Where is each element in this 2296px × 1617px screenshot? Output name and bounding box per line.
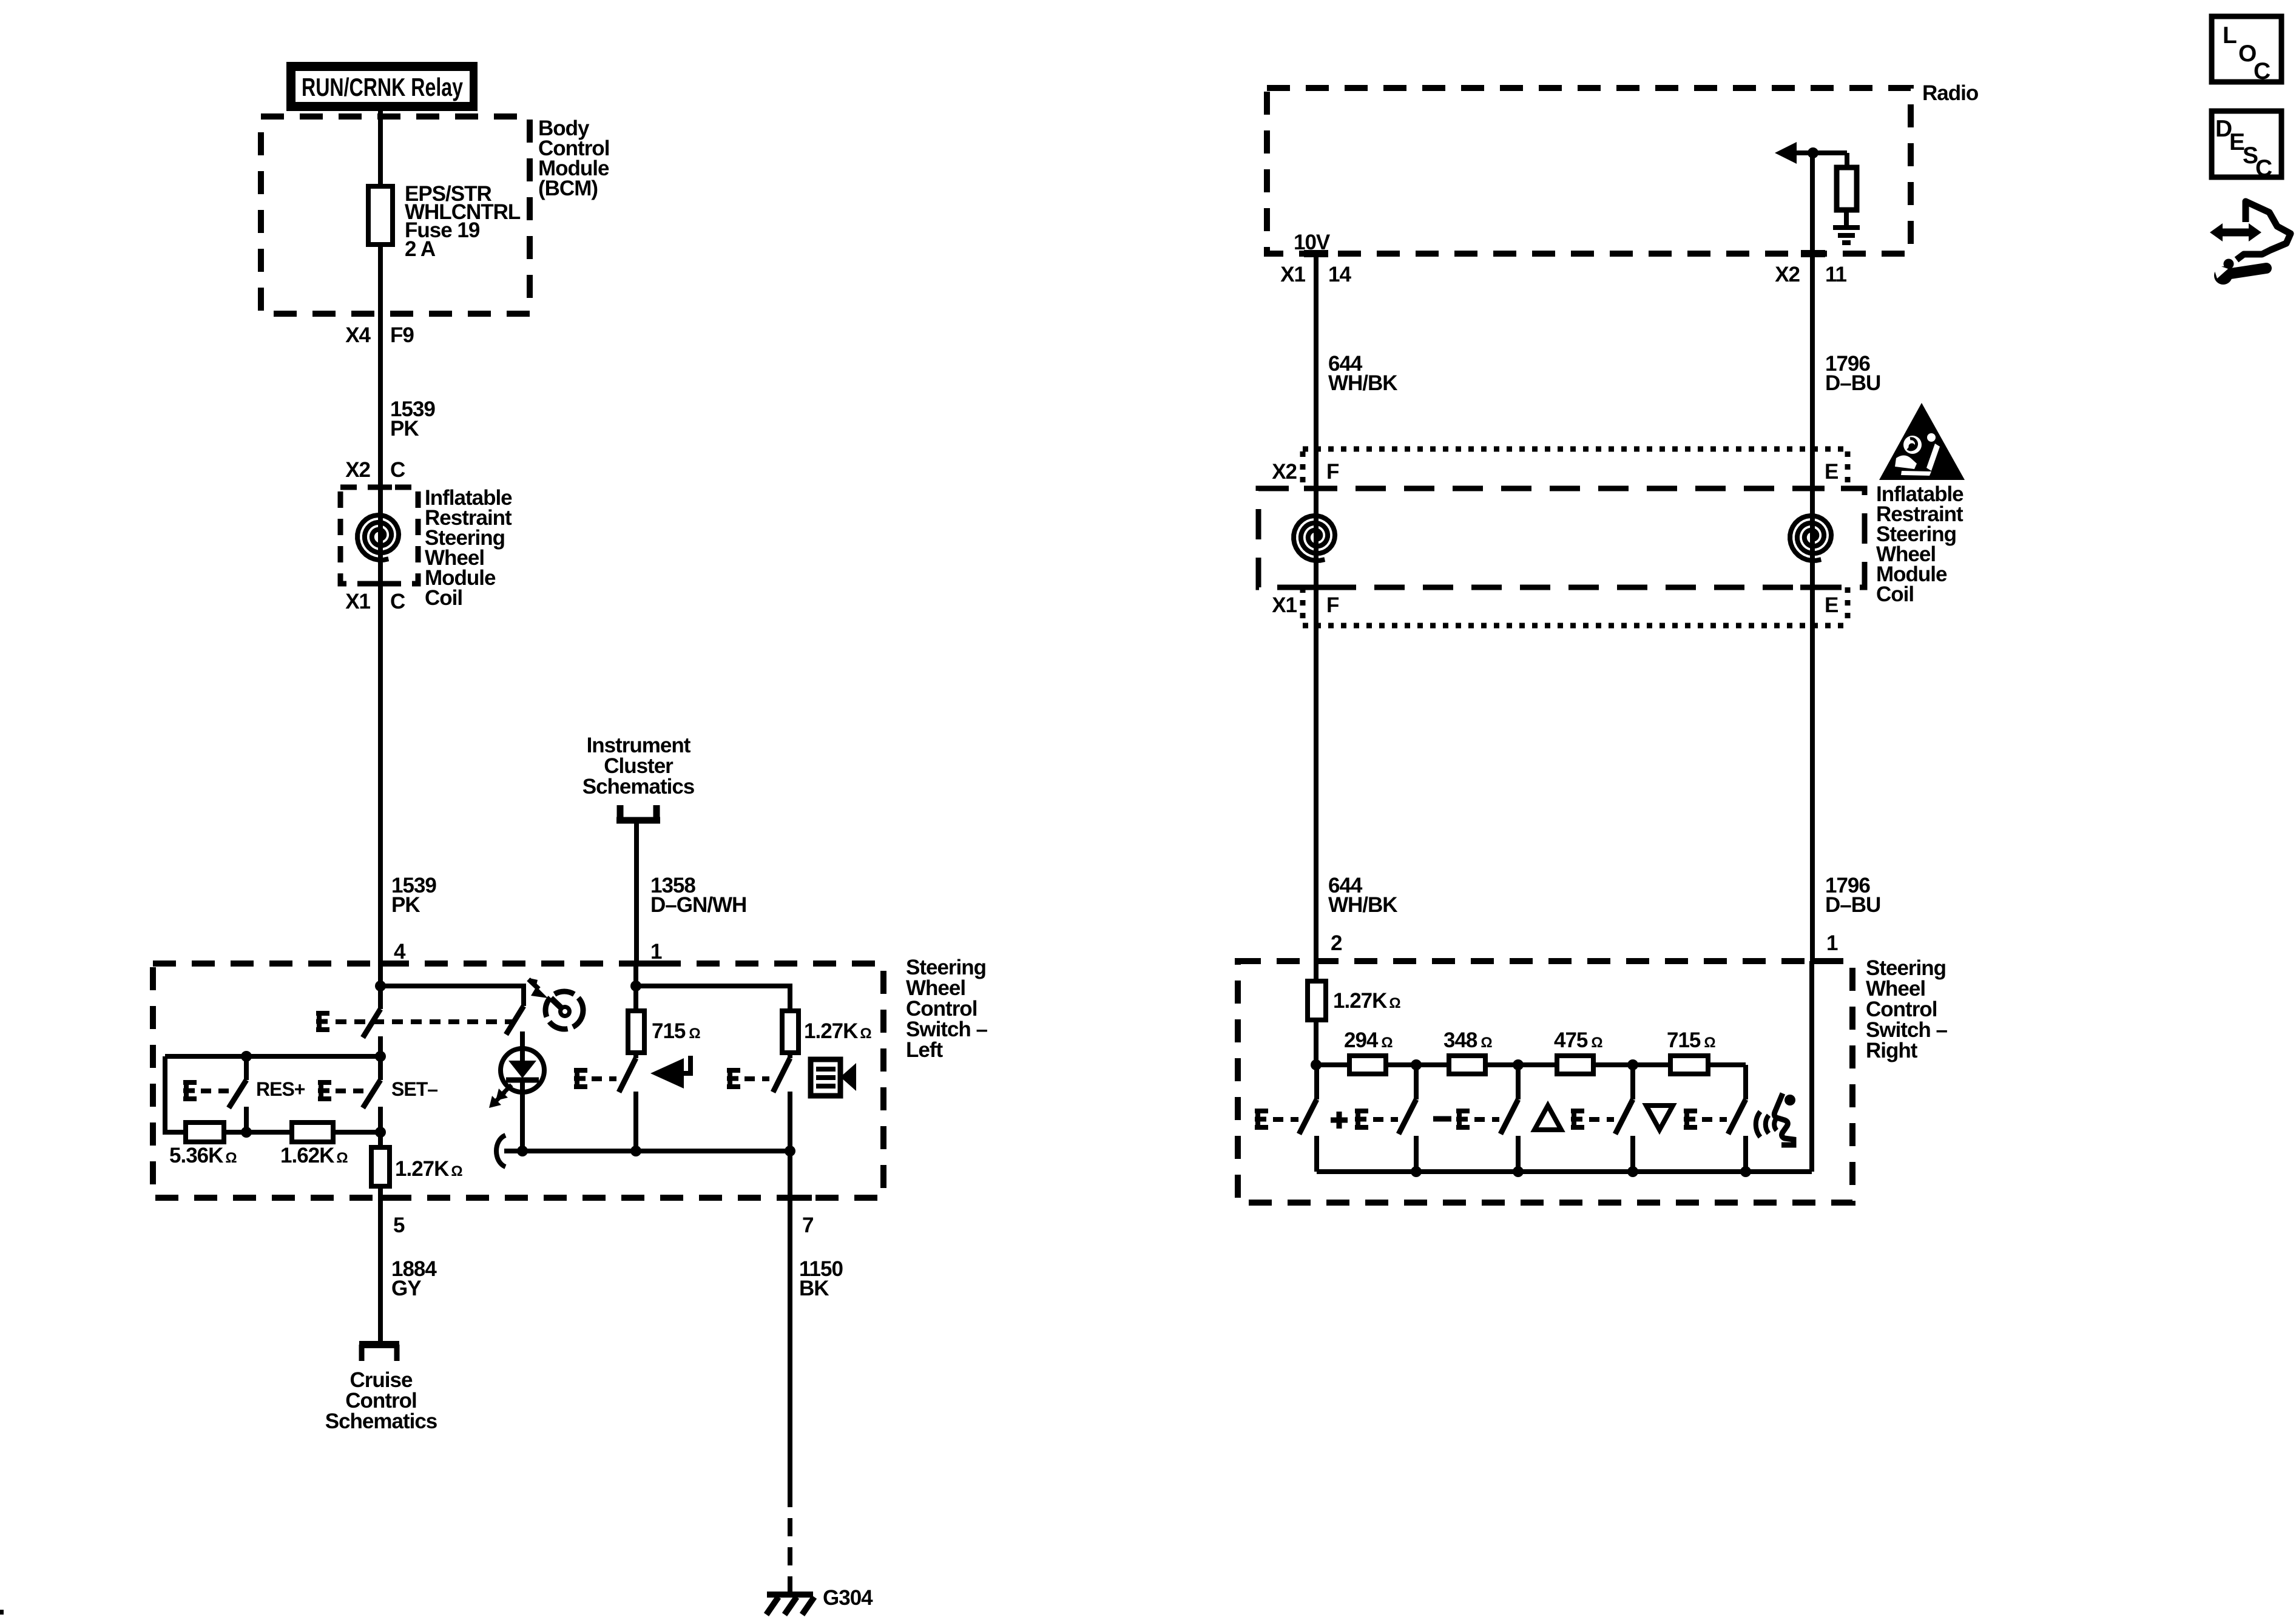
resistor 294	[1349, 1056, 1386, 1074]
wire: horizontal to RES+/SET- branch	[165, 1054, 380, 1059]
contact E (up switch)	[1456, 1109, 1470, 1130]
label: Inflatable Restraint Steering Wheel Module Coil (left)	[425, 486, 512, 610]
SET- switch blade	[363, 1080, 380, 1108]
wire: pin 7 ground wire 1150 BK	[788, 1151, 792, 1507]
wire 1796 D-BU (radio to coil to switch)	[1810, 153, 1815, 964]
svg-text:F9: F9	[390, 323, 414, 347]
svg-text:Coil: Coil	[1876, 582, 1914, 606]
clockspring coil spiral (1796 side)	[1790, 516, 1831, 561]
ground G304	[766, 1595, 814, 1615]
service/part navigation icon	[2210, 201, 2291, 285]
junction (627,1866)	[375, 1127, 386, 1138]
earth ground (radio internal)	[1833, 228, 1860, 243]
wire: branch to cruise on/off contact	[380, 986, 524, 1006]
resistor 715 (right box)	[1670, 1056, 1708, 1074]
svg-text:Coil: Coil	[425, 586, 462, 610]
bottom return bus	[1317, 1169, 1812, 1174]
fuse: EPS/STR WHLCNTRL Fuse 19 2A	[368, 186, 393, 245]
label: Steering Wheel Control Switch - Right	[1866, 956, 1948, 1062]
svg-text:G304: G304	[823, 1586, 873, 1610]
resistor ladder bus	[1316, 1062, 1746, 1067]
relay: RUN/CRNK Relay	[286, 62, 478, 111]
junction (627,1741)	[375, 1051, 386, 1062]
illumination/return bus	[504, 1149, 790, 1153]
switch 2 (-) stub/blade/stub	[1399, 1065, 1416, 1172]
seek switch blade	[619, 1058, 636, 1092]
svg-text:5: 5	[393, 1214, 405, 1237]
clockspring coil spiral (left)	[357, 515, 399, 560]
svg-text:PK: PK	[391, 893, 420, 917]
E dashes (- switch)	[1373, 1117, 1398, 1122]
junction (2502,1931)	[1513, 1166, 1524, 1177]
LOC legend box	[2212, 16, 2281, 84]
connector label X2 / 11	[1775, 263, 1846, 286]
DESC legend box	[2212, 111, 2281, 181]
svg-text:X2: X2	[1272, 460, 1297, 484]
wire label 1358 D-GN/WH	[650, 874, 746, 917]
svg-text:X1: X1	[1272, 593, 1297, 617]
fuse value label	[405, 182, 521, 261]
svg-text:E: E	[1825, 460, 1838, 484]
contact E (cruise on/off)	[316, 1011, 329, 1032]
svg-text:C: C	[390, 458, 405, 482]
radio internal arrow (serial data)	[1775, 142, 1847, 164]
tick at coil box top	[368, 485, 392, 490]
wire label 1539 PK (upper)	[390, 397, 435, 441]
junction (2988,252)	[1808, 147, 1818, 158]
label +	[1331, 1112, 1348, 1129]
wire label 644 WH/BK (upper)	[1328, 352, 1397, 395]
wire 644 WH/BK (radio to coil to switch)	[1314, 254, 1319, 964]
connector label X4 / F9	[345, 323, 414, 347]
junction (1302,1897)	[785, 1146, 795, 1156]
label -	[1433, 1116, 1451, 1122]
junction (861,1897)	[517, 1146, 528, 1156]
svg-text:Schematics: Schematics	[325, 1409, 437, 1433]
svg-text:WH/BK: WH/BK	[1328, 371, 1397, 395]
off-page connector: Instrument Cluster	[616, 805, 660, 823]
label down triangle	[1646, 1106, 1673, 1130]
double-headed arrow	[2220, 229, 2251, 237]
resistor 1.27K (series to pin 5)	[371, 1147, 390, 1186]
LED lead	[520, 1031, 525, 1151]
E dashes (down switch)	[1589, 1117, 1614, 1122]
pin tick X1	[1304, 250, 1328, 257]
E dashes (up switch)	[1474, 1117, 1499, 1122]
contact E (SET-)	[318, 1080, 331, 1101]
junction (2169,1755)	[1311, 1059, 1322, 1070]
svg-text:RUN/CRNK Relay: RUN/CRNK Relay	[302, 73, 463, 101]
label: Steering Wheel Control Switch - Left	[906, 956, 988, 1062]
wire 644 into box	[1314, 961, 1319, 983]
resistor 475	[1557, 1056, 1593, 1074]
switch 5 (voice) riser from bus end	[1728, 1065, 1746, 1172]
junction (2334,1755)	[1411, 1059, 1422, 1070]
voice recognition icon	[1756, 1093, 1794, 1145]
switch 3 (up) stub/blade/stub	[1501, 1065, 1518, 1172]
svg-text:Left: Left	[906, 1038, 944, 1062]
wire label 1796 D-BU (upper)	[1825, 352, 1880, 395]
dashed wire to G304	[788, 1518, 792, 1592]
connector labels bottom row X1 F E	[1272, 593, 1838, 617]
svg-text:2 A: 2 A	[405, 237, 436, 261]
RES+ lower stub	[244, 1107, 249, 1132]
connector labels top row X2 F E	[1272, 460, 1838, 484]
svg-text:1: 1	[650, 940, 662, 964]
wire label 1150 BK	[799, 1257, 843, 1300]
junction (406,1741)	[241, 1051, 252, 1062]
resistor 348	[1449, 1056, 1485, 1074]
svg-text:WH/BK: WH/BK	[1328, 893, 1397, 917]
radio dashed box	[1267, 88, 1911, 254]
svg-text:Schematics: Schematics	[582, 775, 695, 798]
E dashes (SET-)	[336, 1089, 364, 1093]
mute switch blade	[773, 1058, 790, 1092]
svg-text:11: 11	[1825, 263, 1847, 286]
switch 4 (down) stub/blade/stub	[1615, 1065, 1633, 1172]
resistor 1.27K (right box)	[1308, 981, 1326, 1020]
svg-text:GY: GY	[391, 1277, 421, 1300]
speedometer (cruise) icon	[528, 978, 583, 1029]
tick at coil box bottom	[368, 581, 392, 587]
wrench	[2214, 266, 2232, 285]
svg-text:Radio: Radio	[1922, 81, 1979, 105]
wire: instrument cluster to switch box (circuit 1358)	[634, 823, 639, 964]
tick marks at coil box crossings	[1304, 488, 1825, 587]
mute/volume icon	[811, 1059, 856, 1096]
junction (2691,1931)	[1627, 1166, 1638, 1177]
label: Body Control Module (BCM)	[538, 116, 609, 200]
svg-text:4: 4	[394, 940, 406, 964]
coil module dashed box (left)	[340, 487, 418, 584]
svg-text:D–GN/WH: D–GN/WH	[650, 893, 746, 917]
connector label X2 / C	[345, 458, 405, 482]
contact E (mute)	[727, 1068, 740, 1089]
junction (1048,1897)	[630, 1146, 641, 1156]
svg-text:X1: X1	[345, 590, 370, 613]
seek lower stub	[633, 1092, 638, 1151]
SIR warning triangle	[1879, 403, 1965, 480]
coil module dashed box (right)	[1258, 488, 1865, 587]
pin ticks at left box edges	[380, 964, 812, 1198]
wire label 1796 D-BU (lower)	[1825, 874, 1880, 917]
LED (illumination)	[489, 1048, 544, 1108]
svg-text:C: C	[2255, 155, 2272, 181]
junction (2502,1755)	[1513, 1059, 1524, 1070]
wire: 1358 into box	[633, 964, 638, 1011]
wire: pin 5 to cruise control schematics	[378, 1186, 383, 1342]
wire: branch to 1.27K (mute)	[636, 986, 790, 1011]
off-page connector: Cruise Control	[359, 1345, 399, 1361]
BCM dashed box	[261, 116, 530, 314]
svg-text:X2: X2	[1775, 263, 1800, 286]
stray scan mark	[0, 1610, 4, 1615]
svg-text:14: 14	[1328, 263, 1351, 286]
RES+ switch blade	[229, 1080, 246, 1108]
connector label X1 / C	[345, 590, 405, 613]
connector dotted box (coil connectors)	[1303, 449, 1848, 626]
wire: main resumes below blade	[378, 1036, 383, 1080]
E dashes (+ switch)	[1273, 1117, 1298, 1122]
svg-text:D–BU: D–BU	[1825, 893, 1880, 917]
SET- switch stub	[378, 1056, 383, 1080]
resistor 1.62K	[292, 1122, 333, 1142]
pin tick X2	[1801, 250, 1825, 257]
steering wheel control switch left: dashed box	[153, 964, 883, 1198]
contact E (- switch)	[1355, 1109, 1368, 1130]
svg-text:PK: PK	[390, 417, 419, 441]
voice icon head dot	[1784, 1095, 1795, 1106]
svg-text:1: 1	[1826, 931, 1838, 955]
svg-text:X2: X2	[345, 458, 370, 482]
cruise on/off switch blade (left, on main wire)	[363, 1009, 380, 1038]
svg-text:Right: Right	[1866, 1039, 1918, 1062]
junction (2877,1931)	[1740, 1166, 1751, 1177]
E dashes (seek)	[592, 1076, 616, 1081]
wire label 1539 PK (lower)	[391, 874, 436, 917]
mute switch stub	[788, 1053, 792, 1058]
clockspring coil spiral (644 side)	[1294, 516, 1335, 561]
svg-text:L: L	[2223, 22, 2237, 49]
seek switch stub	[633, 1053, 638, 1058]
wire: pin 1 riser	[1809, 961, 1814, 1172]
resistor 5.36K	[186, 1122, 224, 1142]
wire: main 1539 inside box	[378, 964, 383, 1009]
ganged linkage dashed line	[336, 1019, 513, 1024]
E dashes (voice switch)	[1702, 1117, 1727, 1122]
mute lower stub	[788, 1092, 792, 1151]
junction (627,1625)	[375, 981, 386, 991]
wire: resistor row	[165, 1130, 380, 1135]
pin ticks at right box edge	[1316, 958, 1834, 964]
svg-text:7: 7	[802, 1214, 813, 1237]
wire label 644 WH/BK (lower)	[1328, 874, 1397, 917]
contact E (RES+)	[183, 1080, 197, 1101]
label up triangle	[1535, 1106, 1561, 1130]
label: Instrument Cluster Schematics	[582, 734, 695, 798]
resistor 715 (seek)	[628, 1011, 644, 1053]
svg-text:RES+: RES+	[256, 1078, 305, 1100]
junction (2691,1755)	[1627, 1059, 1638, 1070]
steering wheel control switch right: dashed box	[1238, 961, 1852, 1203]
junction (1048,1625)	[630, 981, 641, 991]
svg-text:2: 2	[1331, 931, 1342, 955]
svg-text:SET–: SET–	[391, 1078, 437, 1100]
connector label X1 / 14	[1280, 263, 1351, 286]
cruise on/off switch blade (right)	[506, 1006, 524, 1035]
radio internal pull-up resistor	[1837, 153, 1857, 226]
wire: main resumes to resistor row	[378, 1107, 383, 1147]
svg-text:F: F	[1326, 460, 1339, 484]
switch 1 (+) stub/blade/stub	[1299, 1065, 1317, 1172]
curl at illumination bus left end	[496, 1135, 505, 1167]
resistor 1.27K (mute)	[782, 1011, 799, 1053]
seek icon (previous track)	[650, 1056, 690, 1089]
svg-text:X4: X4	[345, 323, 371, 347]
contact E (down switch)	[1571, 1109, 1584, 1130]
wire: left leg down to resistor row	[165, 1056, 186, 1132]
label: Cruise Control Schematics	[325, 1368, 437, 1433]
contact E (seek)	[574, 1068, 587, 1089]
E dashes (RES+)	[201, 1089, 230, 1093]
junction (406,1866)	[241, 1127, 252, 1138]
svg-text:D–BU: D–BU	[1825, 371, 1880, 395]
svg-text:BK: BK	[799, 1277, 829, 1300]
part outline	[2237, 201, 2291, 260]
contact E (voice switch)	[1684, 1109, 1697, 1130]
contact E (+ switch)	[1255, 1109, 1268, 1130]
svg-text:(BCM): (BCM)	[538, 177, 598, 200]
svg-text:C: C	[2254, 58, 2271, 84]
svg-text:X1: X1	[1280, 263, 1305, 286]
RES+ switch stub	[244, 1056, 249, 1080]
svg-text:C: C	[390, 590, 405, 613]
junction (2334,1931)	[1411, 1166, 1422, 1177]
svg-text:E: E	[1825, 593, 1838, 617]
wire: relay to switch box (circuit 1539)	[378, 111, 383, 964]
svg-text:F: F	[1326, 593, 1339, 617]
wire label 1884 GY	[391, 1257, 437, 1300]
wire: resistor to bus	[1314, 1020, 1319, 1065]
E dashes (mute)	[745, 1076, 769, 1081]
label: Inflatable Restraint Steering Wheel Module Coil (right)	[1876, 482, 1963, 606]
